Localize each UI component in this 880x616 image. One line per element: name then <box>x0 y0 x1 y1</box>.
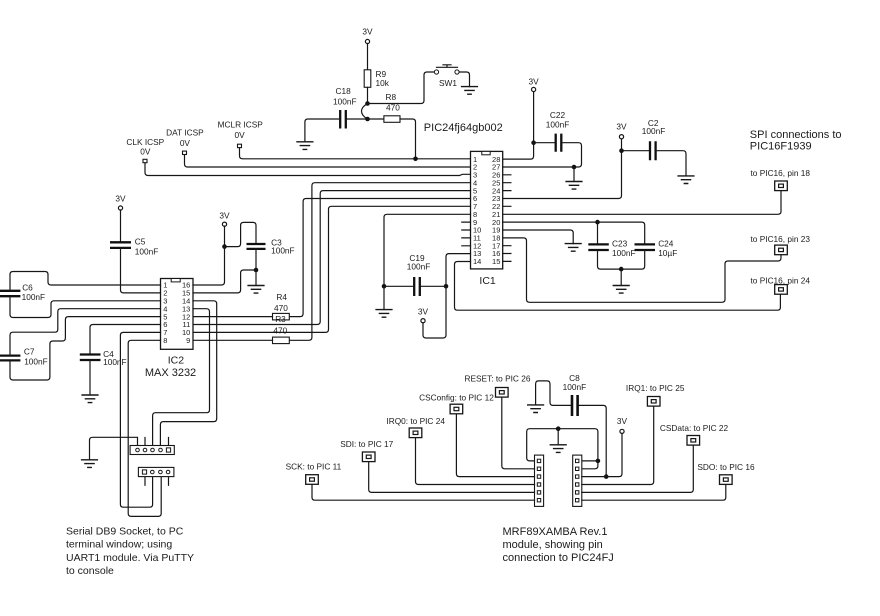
power 3V (C2) <box>616 122 627 139</box>
capacitor C22 <box>546 110 570 152</box>
svg-text:MRF89XAMBA Rev.1: MRF89XAMBA Rev.1 <box>503 526 608 538</box>
IC1 right stubs pins 26 25 24 22 17 16 15 <box>503 175 511 262</box>
wire IC1 pin 13 to node E <box>446 254 471 287</box>
ground (C19) <box>375 310 392 318</box>
wire C2 to ground <box>657 151 686 176</box>
node M junction (bracket ground) <box>556 426 561 431</box>
power 3V supply (R9 pull-up) <box>362 27 373 44</box>
svg-text:to PIC16, pin 18: to PIC16, pin 18 <box>751 168 811 178</box>
power 3V (C3/IC2 pin16) <box>219 210 230 226</box>
capacitor C6 <box>0 283 45 303</box>
svg-text:CSConfig: to PIC 12: CSConfig: to PIC 12 <box>419 393 494 403</box>
ground (C18) <box>296 142 313 150</box>
wire IC2 pin 7 to DB9 row2 pin b <box>120 332 160 507</box>
label CLK ICSP 0V <box>126 137 164 156</box>
label to PIC16 pin 18 <box>751 168 811 178</box>
svg-text:100nF: 100nF <box>22 292 46 302</box>
label SDO to PIC 16 <box>697 462 755 472</box>
wire MRF bracket (IC1 pin18 header link) <box>527 429 598 461</box>
ground (C3) <box>247 286 264 294</box>
pin CLK ICSP <box>143 159 147 162</box>
svg-text:IRQ1: to PIC 25: IRQ1: to PIC 25 <box>626 383 685 393</box>
svg-text:100nF: 100nF <box>271 246 295 256</box>
wire C8 right to node O <box>579 405 606 476</box>
wire IRQ1 to right header pin4 <box>582 407 654 485</box>
svg-text:3V: 3V <box>617 416 628 426</box>
svg-text:470: 470 <box>386 103 400 113</box>
wire C8 left to ground <box>536 381 571 406</box>
ground (DB9) <box>81 460 98 468</box>
switch SW1 <box>434 65 459 88</box>
svg-text:module, showing pin: module, showing pin <box>503 539 603 551</box>
wire C6 top to IC2 pin 1 <box>10 272 161 291</box>
wire C23 C24 bottom loop <box>598 250 645 269</box>
wire 3V to R9 <box>367 44 369 70</box>
DB9 row1 stub pins <box>145 438 169 446</box>
wire DAT ICSP to IC1 pin 2 <box>185 155 471 167</box>
svg-text:C7: C7 <box>24 346 35 356</box>
svg-text:3V: 3V <box>418 306 429 316</box>
connector CSData <box>687 436 700 446</box>
svg-text:Serial DB9 Socket, to PC: Serial DB9 Socket, to PC <box>66 526 184 538</box>
power 3V (MRF) <box>617 416 628 434</box>
wire node G to ground <box>573 167 575 182</box>
svg-text:470: 470 <box>273 325 287 335</box>
svg-text:8: 8 <box>163 336 167 345</box>
svg-text:SW1: SW1 <box>439 78 457 88</box>
wire C19 to node E <box>421 285 446 287</box>
wire C18 left to ground <box>305 119 339 142</box>
wire 3V to header pin3 <box>582 433 622 476</box>
svg-text:to PIC16, pin 23: to PIC16, pin 23 <box>751 234 811 244</box>
node H junction (3V/C2/pin23) <box>619 148 624 153</box>
svg-text:SPI connections to: SPI connections to <box>750 129 842 141</box>
label CSConfig to PIC 12 <box>419 393 494 403</box>
wire IC2 pin 10 to IC1 pin 7 <box>193 206 471 332</box>
connector RESET <box>496 388 509 398</box>
ground (C23/C24) <box>613 286 630 294</box>
wire R3 to IC1 pin 4 <box>289 183 470 341</box>
resistor R4 <box>273 292 290 320</box>
wire IC2 pin 11 to IC1 pin 5 <box>193 191 471 325</box>
wire node K loop to C3 top <box>225 222 257 246</box>
svg-text:SDI: to PIC 17: SDI: to PIC 17 <box>340 439 393 449</box>
wire IC2 pin 6 to C4 <box>90 325 161 355</box>
wire MCLR ICSP to IC1 pin 1 <box>240 148 471 159</box>
wire IRQ0 to left header pin4 <box>416 438 535 484</box>
wire C4 to ground <box>89 360 91 395</box>
wire node F to C22 <box>534 142 555 144</box>
svg-text:15: 15 <box>492 257 500 266</box>
node D junction (C19 left) <box>382 284 387 289</box>
svg-text:R8: R8 <box>386 92 397 102</box>
label SDI to PIC 17 <box>340 439 393 449</box>
wire R4 to IC1 pin 6 <box>289 199 470 317</box>
svg-text:3V: 3V <box>616 122 627 132</box>
svg-text:R4: R4 <box>276 292 287 302</box>
label DAT ICSP 0V <box>166 128 204 148</box>
wire node A to SW1 <box>368 72 435 104</box>
node L junction (C3 bottom/gnd/pin15) <box>254 268 259 273</box>
svg-text:connection to PIC24FJ: connection to PIC24FJ <box>503 552 614 564</box>
IC1 pins 9-12 stubs <box>462 222 471 246</box>
wire node H to C2 <box>622 150 649 152</box>
ground (IC1 pin 19) <box>565 244 582 252</box>
svg-text:3V: 3V <box>115 193 126 203</box>
wire node L to ground <box>255 270 257 286</box>
capacitor C4 <box>80 349 127 367</box>
capacitor C19 <box>407 253 431 296</box>
wire IC2 pin 13 to DB9 row1 pin c <box>153 309 210 446</box>
ground (MRF bracket) <box>550 445 567 453</box>
svg-text:100nF: 100nF <box>546 119 570 129</box>
svg-text:DAT ICSP: DAT ICSP <box>166 128 204 138</box>
svg-text:C18: C18 <box>336 86 352 96</box>
wire C6 bottom to IC2 pin 3 <box>10 296 161 317</box>
ground (C4) <box>81 395 98 403</box>
svg-text:100nF: 100nF <box>407 262 431 272</box>
connector DB9 row 2 <box>138 467 174 476</box>
svg-text:terminal window; using: terminal window; using <box>66 539 172 551</box>
connector CSConfig <box>450 404 463 414</box>
wire node D to ground <box>383 286 385 309</box>
IC IC1 PIC24fj64gb002 28-pin DIP body <box>471 151 503 269</box>
wire IC1 pin 21 to pin18 box <box>503 191 781 215</box>
ground (SW1) <box>461 87 478 95</box>
wire IC1 pin 23 to node H <box>503 151 622 199</box>
wire node K to IC2 pin 16 <box>193 247 225 285</box>
svg-text:SCK: to PIC 11: SCK: to PIC 11 <box>286 462 342 472</box>
svg-text:10µF: 10µF <box>658 248 677 258</box>
label IRQ0 to PIC 24 <box>386 416 445 426</box>
wire C7 bottom to IC2 pin 5 <box>10 317 161 380</box>
connector SDI <box>362 452 375 462</box>
svg-text:IC2: IC2 <box>168 354 185 366</box>
svg-text:100nF: 100nF <box>563 382 587 392</box>
svg-text:PIC24fj64gb002: PIC24fj64gb002 <box>424 122 503 134</box>
label to PIC16 pin 24 <box>751 275 811 285</box>
wire SW1 to ground <box>459 72 469 87</box>
svg-text:UART1 module. Via PuTTY: UART1 module. Via PuTTY <box>66 552 194 564</box>
capacitor C18 <box>333 86 357 128</box>
wire C22 to node G <box>562 143 581 167</box>
wire node H to 3V <box>621 139 623 151</box>
wire node L to IC2 pin 15 <box>193 270 256 293</box>
svg-text:3V: 3V <box>219 210 230 220</box>
label CSData to PIC 22 <box>660 423 729 433</box>
svg-text:100nF: 100nF <box>642 126 666 136</box>
wire 3V to C5 <box>120 210 122 242</box>
wire IC2 pin 12 to R4 <box>193 316 273 318</box>
IC IC2 MAX3232 16-pin DIP body <box>161 279 194 350</box>
wire CSConfig to left header pin3 <box>456 414 534 476</box>
wire CSData to right header pin5 <box>582 446 694 493</box>
svg-text:R3: R3 <box>275 314 286 324</box>
label SCK to PIC 11 <box>286 462 342 472</box>
connector to PIC16 pin 24 <box>775 285 788 295</box>
resistor R8 <box>384 92 400 122</box>
svg-text:C23: C23 <box>612 238 628 248</box>
wire IC1 pin 8 to C19 node <box>384 214 471 286</box>
wire R8 to node C <box>400 119 416 159</box>
wire IC1 pin 14 to line B <box>455 262 781 311</box>
svg-text:0V: 0V <box>235 130 246 140</box>
connector IRQ1 <box>647 397 660 407</box>
capacitor C24 <box>635 238 678 258</box>
node O junction (C8/3V/header pin3) <box>604 474 609 479</box>
wire right header pin1 to node N <box>582 460 598 462</box>
node G junction (C22/gnd/pin27) <box>572 165 577 170</box>
wire node J to ground <box>620 269 622 285</box>
label to PIC16 pin 23 <box>751 234 811 244</box>
wire SDI to left header pin5 <box>369 462 535 492</box>
power 3V (C5) <box>115 193 126 210</box>
ground (C2) <box>677 176 694 184</box>
capacitor C5 <box>110 236 158 256</box>
svg-text:10k: 10k <box>376 78 390 88</box>
wire 3V to node K <box>224 226 226 247</box>
svg-text:to PIC16, pin 24: to PIC16, pin 24 <box>751 275 811 285</box>
svg-text:14: 14 <box>473 257 481 266</box>
wire SDO to right header pin6 <box>582 485 726 500</box>
power 3V (C22) <box>529 77 540 92</box>
wire right header pin2 to node N <box>582 461 598 469</box>
ground (C22) <box>565 182 582 190</box>
connector DB9 row 1 <box>130 446 174 455</box>
wire R9 to node A <box>367 87 369 103</box>
label PIC24fj64gb002 <box>424 122 503 134</box>
connector MRF header left <box>535 455 544 506</box>
connector to PIC16 pin 18 <box>775 181 788 191</box>
node K junction (3V/pin16/C3) <box>222 244 227 249</box>
svg-text:IRQ0: to PIC 24: IRQ0: to PIC 24 <box>386 416 445 426</box>
wire node F to 3V <box>533 91 535 142</box>
pin DAT ICSP <box>183 151 187 154</box>
svg-text:100nF: 100nF <box>24 357 48 367</box>
DB9 row2 stub pins <box>145 477 169 486</box>
wire SCK to left header pin6 <box>312 485 535 500</box>
ground (C8) <box>527 405 544 413</box>
svg-text:C5: C5 <box>135 236 146 246</box>
label SPI connections to PIC16F1939 <box>750 129 842 152</box>
capacitor C3 <box>247 238 295 256</box>
svg-text:470: 470 <box>274 303 288 313</box>
svg-text:100nF: 100nF <box>135 247 159 257</box>
wire IC1 pin 28 up to node F <box>503 143 534 159</box>
node B junction (C18/R8) <box>365 117 370 122</box>
wire node B to R8 <box>368 118 384 120</box>
svg-text:PIC16F1939: PIC16F1939 <box>750 140 812 152</box>
node J junction (C23/C24 bottom) <box>619 267 624 272</box>
connector SDO <box>720 475 733 485</box>
svg-text:IC1: IC1 <box>479 275 496 287</box>
resistor R9 <box>364 69 390 88</box>
svg-text:100nF: 100nF <box>103 357 127 367</box>
svg-text:SDO: to PIC 16: SDO: to PIC 16 <box>697 462 755 472</box>
connector IRQ0 <box>409 428 422 438</box>
wire IC2 pin 9 to R3 <box>193 339 273 341</box>
wire node M to ground <box>557 429 559 445</box>
capacitor C23 <box>588 238 635 258</box>
wire IC2 pin 14 to DB9 row1 pin d <box>160 301 216 446</box>
node N junction (header pins 1-2) <box>596 459 601 464</box>
svg-text:MCLR ICSP: MCLR ICSP <box>218 120 264 130</box>
node C junction (R8 on MCLR wire) <box>413 157 418 162</box>
label IRQ1 to PIC 25 <box>626 383 685 393</box>
wire node D to C19 <box>384 285 413 287</box>
pin MCLR ICSP <box>238 144 242 147</box>
node I junction (C23 top) <box>595 220 600 225</box>
label IC1 <box>479 275 496 287</box>
wire IC1 pin 27 to node G <box>503 166 574 168</box>
svg-text:C6: C6 <box>22 283 33 293</box>
label MCLR ICSP 0V <box>218 120 264 141</box>
wire ground rail to DB9 row1 pin a <box>90 437 138 460</box>
label RESET to PIC 26 <box>465 373 531 383</box>
wire C5 to IC2 pin 2 <box>121 248 161 293</box>
svg-text:MAX 3232: MAX 3232 <box>145 367 196 379</box>
svg-text:CSData: to PIC 22: CSData: to PIC 22 <box>660 423 729 433</box>
wire node A to node B curve <box>362 104 368 120</box>
resistor R3 <box>273 314 290 344</box>
svg-text:100nF: 100nF <box>612 248 636 258</box>
svg-text:0V: 0V <box>180 138 191 148</box>
svg-text:100nF: 100nF <box>333 96 357 106</box>
wire C3 to node L <box>255 249 257 270</box>
svg-text:3V: 3V <box>529 77 540 87</box>
wire IC2 pin 8 to DB9 row2 pin c <box>128 340 161 516</box>
connector to PIC16 pin 23 <box>775 245 788 255</box>
wire C18 right to node B <box>347 118 368 120</box>
node F junction (3V/C22/pin28) <box>531 140 536 145</box>
capacitor C2 <box>642 118 666 160</box>
wire IC1 pin 18 to line A to pin23 box <box>503 238 781 302</box>
svg-text:to console: to console <box>66 565 114 577</box>
connector SCK <box>306 475 319 485</box>
label IC2 <box>168 354 185 366</box>
svg-text:9: 9 <box>186 336 190 345</box>
node A junction (R9/SW1/C18) <box>365 101 370 106</box>
label MAX 3232 <box>145 367 196 379</box>
svg-text:RESET: to PIC 26: RESET: to PIC 26 <box>465 373 531 383</box>
power 3V (C19/pin13) <box>418 306 429 323</box>
label MRF89XAMBA note <box>503 526 614 564</box>
label Serial DB9 note <box>66 526 194 578</box>
svg-text:3V: 3V <box>362 27 373 37</box>
wire RESET to left header pin2 <box>502 398 535 469</box>
wire CLK ICSP to IC1 pin 3 <box>145 163 471 175</box>
svg-text:C24: C24 <box>658 238 674 248</box>
capacitor C7 <box>0 346 48 366</box>
wire 3V hook to node E <box>423 286 446 338</box>
connector MRF header right <box>573 455 582 506</box>
node E junction (C19 right) <box>444 284 449 289</box>
wire C7 top to IC2 pin 4 <box>10 309 161 356</box>
wire IC1 pin 20 to C24 top <box>503 222 645 244</box>
wire node I down to C23 <box>597 222 599 244</box>
capacitor C8 <box>563 373 587 416</box>
svg-text:0V: 0V <box>140 146 151 156</box>
wire IC1 pin 19 to ground <box>503 230 574 244</box>
